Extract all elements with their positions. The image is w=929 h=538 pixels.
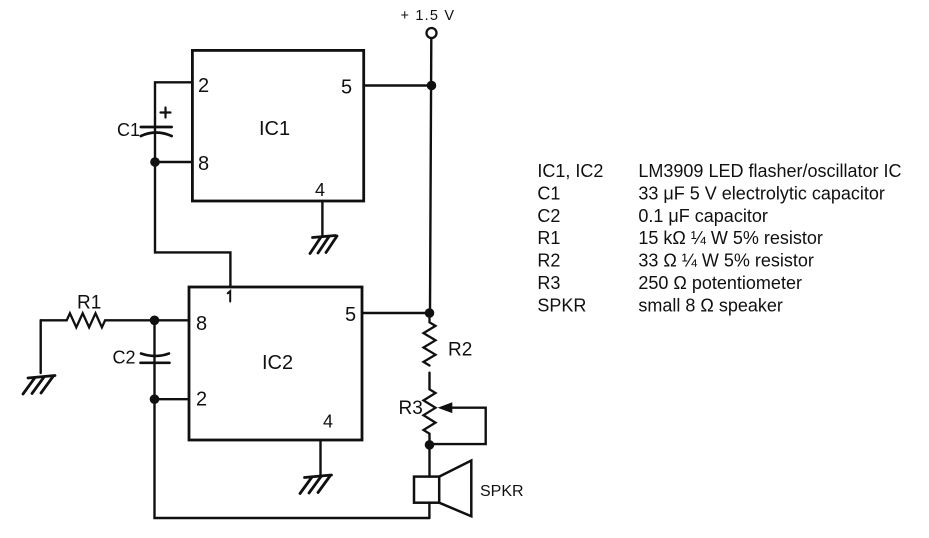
svg-text:small 8 Ω speaker: small 8 Ω speaker <box>638 295 783 315</box>
junction IC2 pin5 / R2 <box>425 308 435 318</box>
speaker SPKR horn <box>439 461 471 517</box>
svg-text:C2: C2 <box>537 206 560 226</box>
wire bottom return <box>155 399 430 518</box>
wire junction to speaker <box>428 445 430 477</box>
svg-text:SPKR: SPKR <box>537 295 586 315</box>
svg-text:15 kΩ ¼ W 5% resistor: 15 kΩ ¼ W 5% resistor <box>638 228 823 248</box>
wire supply vertical <box>430 38 431 313</box>
C1 polarity plus <box>161 108 171 118</box>
ground under IC1 <box>310 236 337 254</box>
wire IC2 pin 2 <box>155 398 190 400</box>
parts list row C2 <box>537 206 767 226</box>
svg-text:LM3909 LED flasher/oscillator: LM3909 LED flasher/oscillator IC <box>638 161 901 181</box>
IC IC2 box <box>189 287 362 440</box>
svg-text:8: 8 <box>198 153 209 175</box>
svg-text:IC2: IC2 <box>262 352 293 374</box>
svg-text:2: 2 <box>198 75 209 97</box>
svg-text:5: 5 <box>345 304 356 326</box>
wire C1 to junction <box>154 127 156 162</box>
svg-text:C1: C1 <box>537 183 560 203</box>
svg-text:R2: R2 <box>448 340 472 361</box>
junction R3 / speaker <box>425 440 435 450</box>
svg-text:R1: R1 <box>77 293 101 314</box>
junction IC1 pin5 / supply <box>427 81 437 91</box>
ground left <box>23 376 55 395</box>
svg-text:4: 4 <box>323 412 333 432</box>
svg-text:R2: R2 <box>537 251 560 271</box>
svg-text:R3: R3 <box>537 273 560 293</box>
wire IC1 pin 5 <box>364 84 432 86</box>
svg-text:C2: C2 <box>113 348 136 368</box>
svg-text:33 Ω ¼ W 5% resistor: 33 Ω ¼ W 5% resistor <box>638 251 814 271</box>
IC2 pin 1 label <box>228 291 231 301</box>
capacitor C2 <box>153 320 155 356</box>
parts list row R3 <box>537 273 802 293</box>
svg-text:33 μF 5 V electrolytic capacit: 33 μF 5 V electrolytic capacitor <box>638 183 884 203</box>
IC IC1 box <box>192 50 363 201</box>
svg-text:0.1 μF capacitor: 0.1 μF capacitor <box>638 206 767 226</box>
svg-text:R3: R3 <box>399 398 423 419</box>
resistor R2 <box>424 313 436 366</box>
parts list row IC1, IC2 <box>537 161 901 181</box>
wire speaker bottom <box>428 503 430 518</box>
wire IC2 pin 8 <box>155 319 190 321</box>
svg-text:C1: C1 <box>117 120 140 140</box>
wire IC2 pin 5 <box>362 312 430 314</box>
junction C1 / IC1 pin 8 <box>150 157 160 167</box>
wire C2 to junction <box>153 356 155 399</box>
speaker SPKR body <box>414 477 439 503</box>
parts list row R1 <box>537 228 823 248</box>
svg-text:250 Ω potentiometer: 250 Ω potentiometer <box>638 273 802 293</box>
potentiometer R3 <box>424 389 436 433</box>
svg-text:R1: R1 <box>537 228 560 248</box>
wire R2 to R3 <box>428 373 430 390</box>
parts list row C1 <box>537 183 884 203</box>
wire R3 wiper return <box>434 408 486 444</box>
junction R1 / C2 / IC2 pin 8 <box>150 316 160 326</box>
svg-text:IC1: IC1 <box>259 118 290 140</box>
parts list row R2 <box>537 251 814 271</box>
svg-text:2: 2 <box>196 389 207 411</box>
svg-text:5: 5 <box>341 77 352 99</box>
supply terminal <box>427 28 437 38</box>
junction C2 / IC2 pin 2 <box>150 394 160 404</box>
wire IC1 pin 4 to ground <box>321 201 323 236</box>
resistor R1 <box>41 313 155 327</box>
wire IC2 pin 4 to ground <box>319 440 321 475</box>
R3 wiper arrow <box>438 402 453 413</box>
svg-text:IC1, IC2: IC1, IC2 <box>537 161 603 181</box>
parts list row SPKR <box>537 295 783 315</box>
wire IC1 pin 2 to C1 <box>155 82 192 127</box>
capacitor C1 plates <box>141 127 172 136</box>
wire junction to IC2 pin 1 <box>155 162 230 287</box>
svg-text:+ 1.5 V: + 1.5 V <box>401 8 456 24</box>
svg-text:4: 4 <box>315 180 325 200</box>
ground under IC2 <box>300 475 332 494</box>
wire R3 bottom <box>428 434 430 445</box>
wire IC1 pin 8 <box>155 161 192 163</box>
wire R1 to ground <box>40 320 42 373</box>
svg-text:8: 8 <box>196 313 207 335</box>
svg-text:SPKR: SPKR <box>480 483 524 500</box>
